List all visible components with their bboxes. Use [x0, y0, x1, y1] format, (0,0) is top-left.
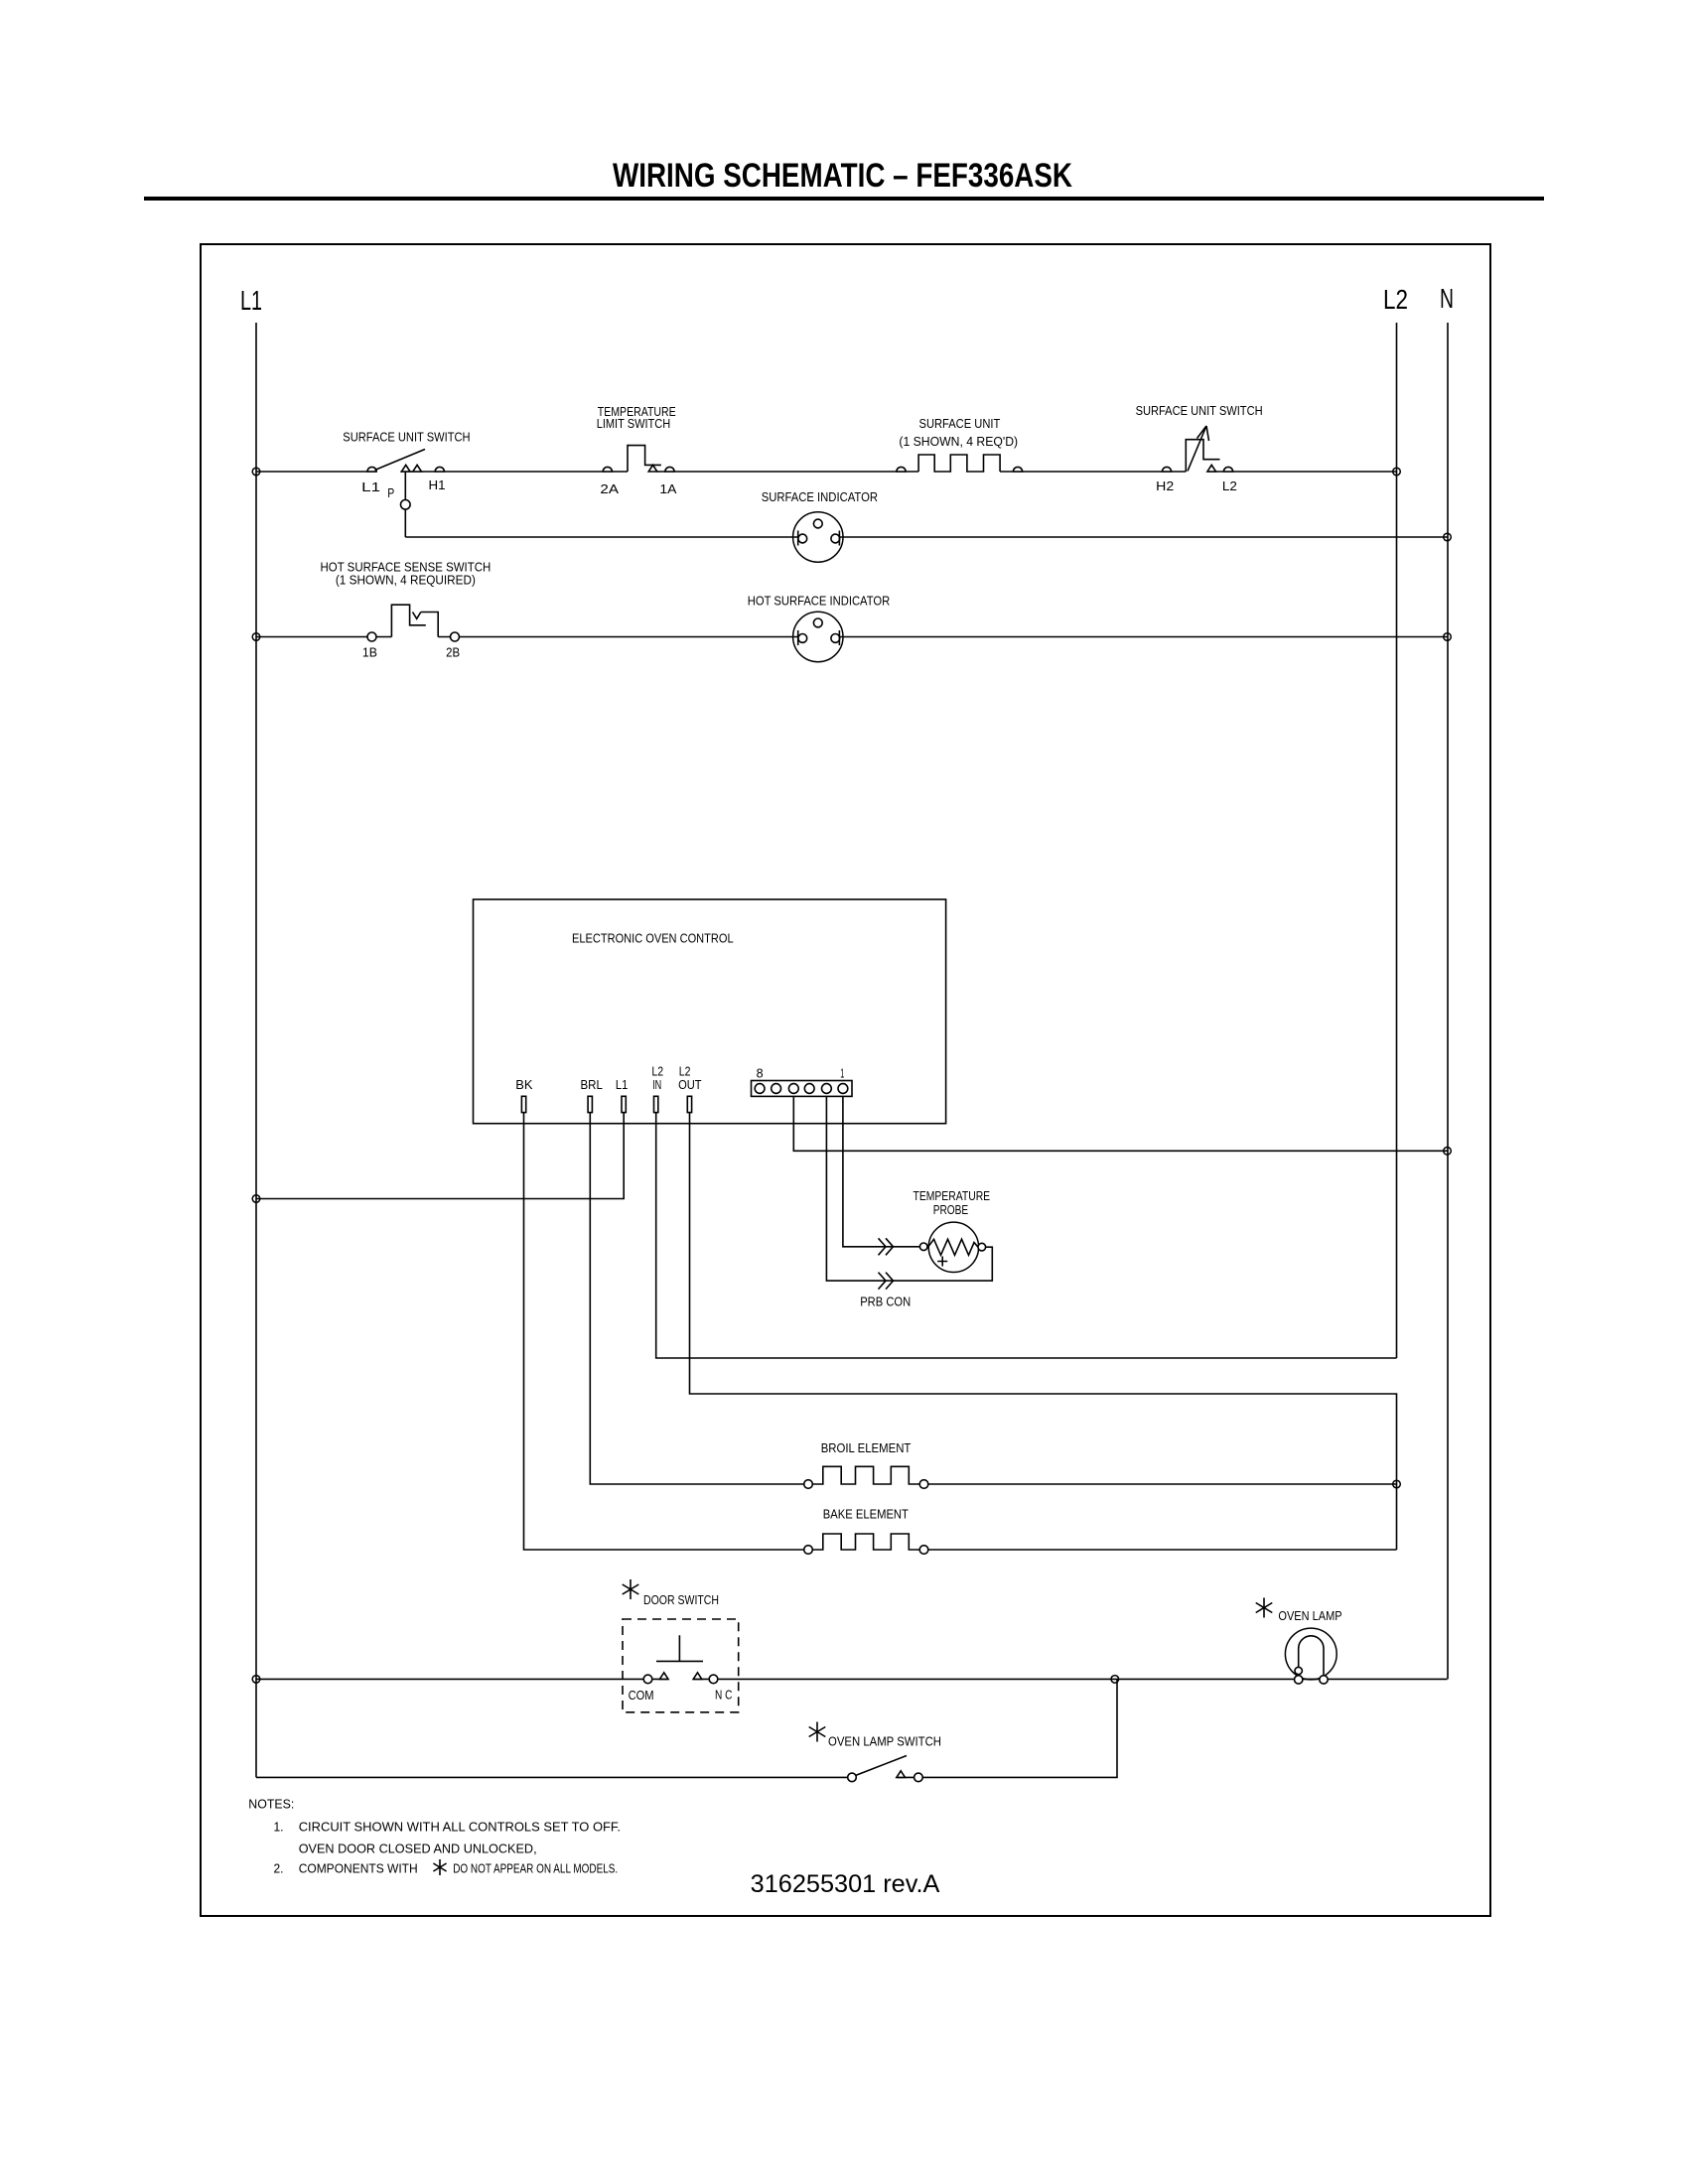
svg-text:SURFACE UNIT SWITCH: SURFACE UNIT SWITCH [1136, 403, 1263, 418]
hot surface indicator pins [813, 618, 822, 627]
oven lamp terminal left [1295, 1676, 1303, 1684]
svg-text:NOTES:: NOTES: [248, 1796, 294, 1811]
switch SW1 triangle 1 [401, 465, 410, 472]
title rule [144, 197, 1544, 201]
svg-text:2.: 2. [274, 1861, 284, 1876]
svg-text:COMPONENTS WITH: COMPONENTS WITH [299, 1861, 418, 1876]
svg-text:1.: 1. [274, 1820, 284, 1835]
svg-text:2B: 2B [446, 644, 460, 659]
svg-text:N C: N C [715, 1688, 732, 1703]
svg-text:L1: L1 [616, 1077, 628, 1092]
oven lamp bulb outline [1285, 1628, 1336, 1680]
temp limit switch triangle [648, 465, 657, 472]
junction indicator wire at N bus [1444, 533, 1452, 541]
svg-text:OVEN LAMP SWITCH: OVEN LAMP SWITCH [828, 1734, 941, 1749]
oven lamp asterisk [1256, 1598, 1273, 1618]
wire door switch row y=1691.4 [256, 1678, 1448, 1680]
wire L1 pin to L1 bus [256, 1113, 624, 1199]
svg-text:IN: IN [652, 1077, 661, 1092]
temperature probe terminal right [978, 1243, 986, 1251]
note 2 asterisk [433, 1859, 446, 1875]
junction top wire at L1 bus [252, 468, 260, 476]
wire hot surface row y=641.5 [256, 636, 1448, 638]
wire connector pin3 to N bus [793, 1096, 1447, 1151]
broil element terminal right [919, 1480, 928, 1489]
svg-text:OVEN LAMP: OVEN LAMP [1278, 1608, 1341, 1623]
terminal H2 dome [1162, 467, 1171, 472]
electronic oven control box U1 [474, 899, 946, 1124]
terminal L2 dome [1223, 467, 1232, 472]
switch SW2 blade with arrow [1188, 426, 1209, 472]
svg-text:TEMPERATURE: TEMPERATURE [914, 1188, 991, 1203]
hot surface sense switch body [391, 605, 438, 636]
svg-text:HOT SURFACE INDICATOR: HOT SURFACE INDICATOR [748, 593, 890, 608]
wire oven lamp switch row y=1790.4 [256, 1679, 1117, 1777]
bake element terminal right [919, 1546, 928, 1555]
oven lamp switch blade [856, 1756, 908, 1776]
oven lamp switch triangle [897, 1771, 906, 1778]
surface unit element terminal right dome [1013, 467, 1022, 472]
wire surface indicator row y=541 [405, 536, 1447, 538]
surface indicator electrodes [798, 531, 840, 546]
svg-text:OUT: OUT [678, 1077, 702, 1092]
terminal 2B circle [451, 632, 460, 641]
door switch triangle 1 [659, 1673, 668, 1680]
wire L2 bus vertical [1396, 323, 1398, 1358]
hot surface indicator lamp body [793, 612, 843, 661]
hot surface sense switch V mark [413, 613, 421, 619]
svg-text:BRL: BRL [581, 1077, 603, 1092]
svg-text:L1: L1 [361, 479, 380, 494]
surface unit element bumps [918, 455, 1000, 472]
junction door wire at L1 bus [252, 1676, 260, 1684]
terminal 1B circle [367, 632, 376, 641]
wire connector pin6 to probe [843, 1096, 920, 1246]
pin L1 blade [622, 1096, 626, 1112]
wire top row segment triangle to L2 bus [1207, 471, 1396, 473]
broil element wire and bumps [812, 1466, 1396, 1484]
door switch actuator [656, 1635, 703, 1661]
svg-text:P: P [387, 485, 394, 500]
surface unit element terminal left dome [897, 467, 906, 472]
switch SW2 triangle [1207, 465, 1216, 472]
svg-text:H2: H2 [1156, 478, 1174, 493]
junction hot surface wire at N bus [1444, 633, 1452, 641]
terminal L1 dome [367, 467, 376, 472]
oven lamp inner terminal [1295, 1667, 1302, 1674]
svg-text:OVEN DOOR CLOSED AND UNLOCKED,: OVEN DOOR CLOSED AND UNLOCKED, [299, 1842, 537, 1856]
pin L2 IN blade [654, 1096, 658, 1112]
pin BK blade [521, 1096, 525, 1112]
temperature probe terminal left [919, 1243, 927, 1251]
junction hot surface wire at L1 bus [252, 633, 260, 641]
door switch dashed box [623, 1619, 739, 1712]
svg-text:BROIL ELEMENT: BROIL ELEMENT [821, 1440, 912, 1455]
terminal H1 dome [435, 467, 444, 472]
temperature probe body [928, 1222, 978, 1272]
wire N bus vertical [1447, 323, 1449, 1679]
svg-text:(1 SHOWN, 4 REQ'D): (1 SHOWN, 4 REQ'D) [899, 434, 1018, 449]
terminal NC circle [709, 1675, 718, 1684]
junction pin3 wire at N bus [1444, 1148, 1452, 1156]
svg-text:DO NOT APPEAR ON ALL MODELS.: DO NOT APPEAR ON ALL MODELS. [453, 1861, 618, 1876]
svg-text:PROBE: PROBE [933, 1202, 969, 1217]
wire BK pin down [524, 1113, 804, 1550]
wire BRL pin down [590, 1113, 803, 1484]
wire L1 bus vertical [255, 323, 257, 1777]
junction door wire lamp switch tap [1111, 1676, 1119, 1684]
broil element terminal left [804, 1480, 813, 1489]
svg-text:SURFACE UNIT: SURFACE UNIT [919, 416, 1001, 431]
svg-text:ELECTRONIC OVEN CONTROL: ELECTRONIC OVEN CONTROL [572, 931, 734, 946]
wire top row segment 1A to surface unit [657, 471, 918, 473]
svg-text:SURFACE INDICATOR: SURFACE INDICATOR [762, 489, 878, 504]
bake element wire and bumps [812, 1534, 1396, 1550]
switch SW1 blade [375, 450, 426, 471]
switch SW2 body [1186, 440, 1219, 472]
connector J1 body [752, 1081, 853, 1097]
svg-text:COM: COM [629, 1688, 654, 1703]
junction broil wire at right vertical [1393, 1480, 1401, 1488]
svg-text:N: N [1440, 283, 1454, 314]
temp limit switch bump [628, 446, 661, 472]
oven lamp switch terminal right [914, 1773, 923, 1782]
svg-text:WIRING SCHEMATIC – FEF336ASK: WIRING SCHEMATIC – FEF336ASK [613, 157, 1072, 195]
door switch triangle 2 [693, 1673, 702, 1680]
hot surface indicator electrodes [798, 630, 840, 645]
terminal COM circle [643, 1675, 652, 1684]
svg-text:PRB CON: PRB CON [860, 1295, 911, 1309]
svg-text:DOOR SWITCH: DOOR SWITCH [643, 1592, 719, 1607]
surface indicator lamp body [793, 512, 843, 562]
wire connector pin5 to probe return [826, 1096, 992, 1281]
svg-text:H1: H1 [429, 478, 446, 492]
wire L2 IN pin to L2 bus [656, 1113, 1397, 1358]
pin BRL blade [588, 1096, 592, 1112]
svg-text:LIMIT SWITCH: LIMIT SWITCH [597, 416, 671, 431]
terminal 1A dome [665, 467, 674, 472]
schematic border frame [201, 244, 1490, 1916]
terminal 2A dome [603, 467, 612, 472]
svg-text:BAKE ELEMENT: BAKE ELEMENT [823, 1506, 909, 1521]
wire top row segment surface unit to H2 switch [1000, 471, 1186, 473]
svg-text:BK: BK [515, 1077, 533, 1092]
wire L2 OUT pin down and right [690, 1113, 1397, 1550]
svg-text:1A: 1A [659, 481, 676, 496]
svg-text:L1: L1 [240, 285, 262, 316]
svg-text:L2: L2 [1222, 478, 1237, 493]
door switch asterisk [623, 1579, 639, 1599]
bake element terminal left [804, 1546, 813, 1555]
temperature probe plus mark [937, 1257, 947, 1267]
plug chevrons lower [879, 1273, 894, 1290]
svg-text:2A: 2A [600, 481, 619, 496]
junction top wire at L2 bus [1393, 468, 1401, 476]
plug chevrons upper [879, 1238, 894, 1255]
wire top row segment triangles to temp-limit-switch [400, 471, 628, 473]
terminal P circle [401, 500, 411, 510]
svg-text:L2: L2 [1383, 284, 1408, 315]
svg-text:8: 8 [757, 1065, 764, 1080]
surface indicator pins [813, 519, 822, 528]
oven lamp terminal right [1320, 1676, 1328, 1684]
oven lamp switch asterisk [809, 1722, 826, 1742]
svg-text:1B: 1B [362, 644, 377, 659]
wire top row y=475 segment L1-bus to switch [256, 471, 376, 473]
svg-text:(1 SHOWN, 4 REQUIRED): (1 SHOWN, 4 REQUIRED) [336, 572, 476, 587]
svg-text:316255301 rev.A: 316255301 rev.A [751, 1870, 940, 1898]
svg-text:CIRCUIT SHOWN WITH ALL CONTROL: CIRCUIT SHOWN WITH ALL CONTROLS SET TO O… [299, 1820, 621, 1835]
oven lamp filament loop [1299, 1636, 1324, 1680]
oven lamp switch terminal left [848, 1773, 857, 1782]
connector J1 pin circles [755, 1084, 765, 1094]
switch SW1 triangle 2 [413, 465, 422, 472]
svg-text:SURFACE UNIT SWITCH: SURFACE UNIT SWITCH [343, 429, 470, 444]
pin L2 OUT blade [687, 1096, 691, 1112]
junction L1-pin wire at L1 bus [252, 1195, 260, 1203]
temperature probe resistor zigzag [928, 1239, 979, 1255]
svg-text:1: 1 [840, 1065, 844, 1080]
wire P branch vertical [404, 472, 406, 537]
